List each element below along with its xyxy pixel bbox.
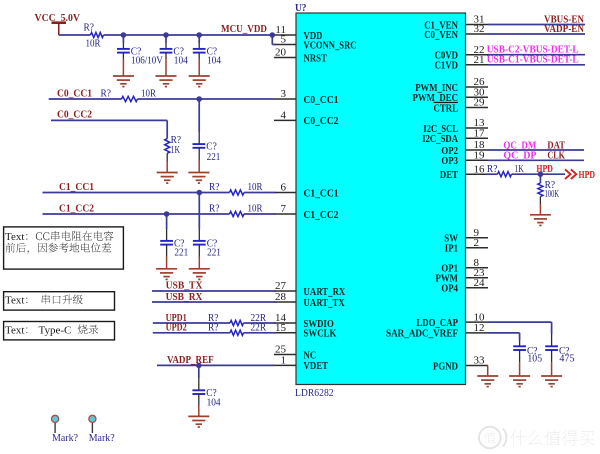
svg-text:VCONN_SRC: VCONN_SRC bbox=[304, 39, 357, 51]
svg-text:R?: R? bbox=[487, 163, 498, 175]
svg-text:C1_CC1: C1_CC1 bbox=[59, 181, 94, 193]
svg-text:Mark?: Mark? bbox=[89, 432, 115, 444]
svg-text:10R: 10R bbox=[248, 202, 264, 214]
svg-text:17: 17 bbox=[474, 128, 486, 140]
svg-text:16: 16 bbox=[474, 163, 486, 175]
svg-text:32: 32 bbox=[474, 23, 485, 35]
svg-text:R?: R? bbox=[101, 87, 112, 99]
svg-text:221: 221 bbox=[174, 246, 188, 258]
svg-text:C0_CC1: C0_CC1 bbox=[57, 87, 92, 99]
svg-text:Type-C: Type-C bbox=[39, 324, 72, 336]
svg-text:6: 6 bbox=[281, 182, 287, 194]
svg-text:DET: DET bbox=[440, 169, 459, 181]
svg-text:C0_CC2: C0_CC2 bbox=[304, 115, 339, 127]
svg-text:C0_CC2: C0_CC2 bbox=[57, 109, 92, 121]
svg-text:1K: 1K bbox=[171, 144, 181, 156]
svg-text:28: 28 bbox=[275, 291, 287, 303]
svg-text:MCU_VDD: MCU_VDD bbox=[221, 23, 267, 35]
svg-text:221: 221 bbox=[207, 246, 221, 258]
svg-text:C0_CC1: C0_CC1 bbox=[304, 94, 339, 106]
svg-text:USB_TX: USB_TX bbox=[166, 280, 203, 292]
svg-text:15: 15 bbox=[275, 322, 287, 334]
svg-text:105: 105 bbox=[527, 353, 542, 365]
svg-text:10R: 10R bbox=[141, 87, 157, 99]
svg-text:Text: Text bbox=[5, 295, 24, 307]
svg-text:29: 29 bbox=[474, 97, 486, 109]
svg-text:20: 20 bbox=[275, 47, 287, 59]
svg-text:3: 3 bbox=[281, 88, 287, 100]
svg-text:R?: R? bbox=[209, 202, 220, 214]
svg-text:CTRL: CTRL bbox=[434, 102, 459, 114]
svg-text:21: 21 bbox=[474, 54, 485, 66]
svg-text:UPD2: UPD2 bbox=[166, 322, 188, 334]
svg-text:33: 33 bbox=[474, 355, 486, 367]
svg-text:OP4: OP4 bbox=[441, 283, 458, 295]
svg-text:4: 4 bbox=[281, 110, 287, 122]
svg-text:5: 5 bbox=[281, 34, 287, 46]
svg-text:C1_CC1: C1_CC1 bbox=[304, 187, 339, 199]
svg-text:C0_VEN: C0_VEN bbox=[424, 29, 458, 41]
svg-text:USB-C1-VBUS-DET-L: USB-C1-VBUS-DET-L bbox=[487, 54, 579, 66]
svg-text:10R: 10R bbox=[86, 38, 102, 50]
svg-text:19: 19 bbox=[474, 150, 486, 162]
svg-text:VADP-EN: VADP-EN bbox=[544, 23, 584, 35]
svg-text:R?: R? bbox=[84, 22, 95, 34]
svg-text:R?: R? bbox=[209, 181, 220, 193]
svg-text:UART_TX: UART_TX bbox=[304, 297, 345, 309]
svg-text:22R: 22R bbox=[251, 322, 267, 334]
svg-text:1: 1 bbox=[281, 355, 287, 367]
svg-text:221: 221 bbox=[207, 151, 221, 163]
svg-text:C1VD: C1VD bbox=[435, 60, 458, 72]
svg-text:IP1: IP1 bbox=[445, 243, 458, 255]
svg-text:104: 104 bbox=[174, 55, 188, 67]
svg-text:104: 104 bbox=[207, 55, 221, 67]
svg-text:24: 24 bbox=[474, 277, 486, 289]
svg-text:I2C_SDA: I2C_SDA bbox=[422, 133, 458, 145]
svg-text:NRST: NRST bbox=[304, 52, 328, 64]
svg-text:SAR_ADC_VREF: SAR_ADC_VREF bbox=[386, 328, 458, 340]
svg-text:12: 12 bbox=[474, 322, 485, 334]
svg-text:R?: R? bbox=[208, 322, 219, 334]
svg-text:PGND: PGND bbox=[433, 360, 458, 372]
svg-text:475: 475 bbox=[559, 353, 575, 365]
svg-text:LDR6282: LDR6282 bbox=[295, 387, 334, 399]
svg-text:106/10V: 106/10V bbox=[131, 55, 163, 67]
svg-text:1K: 1K bbox=[514, 163, 524, 175]
svg-text:OP3: OP3 bbox=[441, 155, 458, 167]
svg-text:C1_CC2: C1_CC2 bbox=[304, 209, 339, 221]
svg-text:USB_RX: USB_RX bbox=[166, 291, 203, 303]
svg-text:C1_CC2: C1_CC2 bbox=[59, 202, 94, 214]
svg-text:Text: Text bbox=[5, 324, 24, 336]
svg-text:100K: 100K bbox=[545, 188, 560, 200]
svg-text:U?: U? bbox=[295, 2, 307, 14]
svg-text:SWCLK: SWCLK bbox=[304, 328, 337, 340]
svg-text:VADP_REF: VADP_REF bbox=[167, 354, 214, 366]
svg-text:HPD: HPD bbox=[579, 169, 596, 181]
svg-text:7: 7 bbox=[281, 203, 287, 215]
svg-text:2: 2 bbox=[474, 237, 480, 249]
svg-text:Mark?: Mark? bbox=[52, 432, 78, 444]
svg-text:10R: 10R bbox=[248, 181, 264, 193]
svg-text:104: 104 bbox=[207, 396, 221, 408]
svg-text:Text: Text bbox=[5, 231, 24, 243]
svg-text:VDET: VDET bbox=[304, 360, 329, 372]
